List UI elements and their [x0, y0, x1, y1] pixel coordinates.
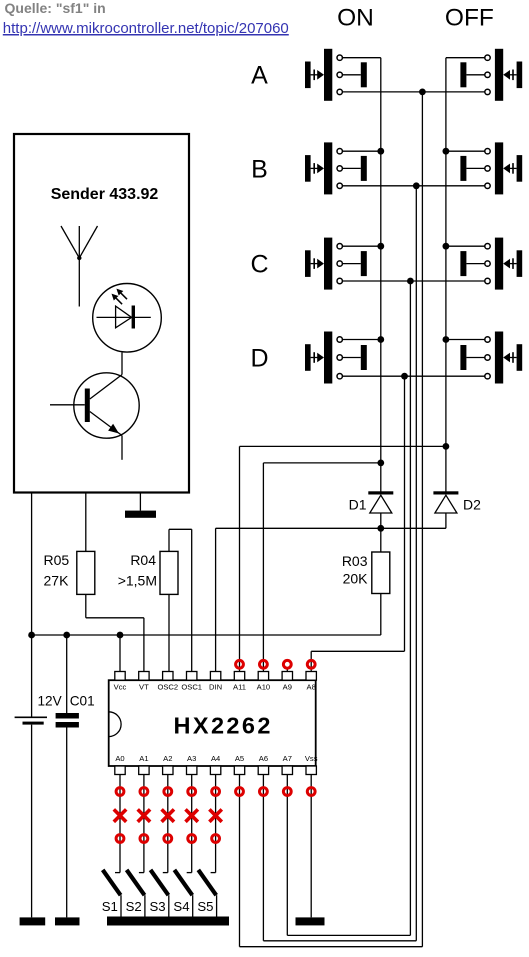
red ring A1 lower	[140, 835, 148, 843]
svg-text:A6: A6	[259, 754, 268, 763]
ground battery	[20, 917, 46, 925]
svg-text:DIN: DIN	[209, 682, 222, 691]
svg-text:>1,5M: >1,5M	[118, 572, 157, 588]
svg-text:S2: S2	[126, 899, 142, 914]
svg-text:R05: R05	[44, 552, 70, 568]
svg-text:A10: A10	[257, 682, 271, 691]
wire S3 to ground bar	[168, 895, 170, 916]
wire row A to A5 vertical	[421, 92, 423, 947]
pin box top Vcc	[115, 672, 125, 681]
junction row B ON top	[377, 148, 384, 155]
pin box top OSC1	[187, 672, 197, 681]
svg-text:A2: A2	[163, 754, 172, 763]
junction row D bottom	[401, 373, 408, 380]
battery 12V	[15, 717, 47, 917]
junction row B bottom	[413, 182, 420, 189]
svg-text:OSC2: OSC2	[157, 682, 178, 691]
svg-text:S1: S1	[102, 899, 118, 914]
wire A3 to switch	[187, 775, 192, 873]
wire R03 to bus	[380, 594, 382, 636]
wire A2 to switch	[163, 775, 168, 873]
red ring A10	[260, 660, 268, 668]
svg-text:27K: 27K	[44, 572, 70, 588]
wire A5 routing	[240, 775, 423, 947]
red ring A0	[116, 788, 124, 796]
pin box bottom A7	[282, 766, 292, 775]
switch S1 lever	[103, 870, 121, 895]
junction row D OFF top	[443, 336, 450, 343]
resistor R05	[77, 551, 95, 594]
svg-text:C: C	[250, 251, 268, 279]
pin box bottom A1	[139, 766, 149, 775]
ground Vss	[296, 917, 325, 925]
wire row B to A6 vertical	[415, 186, 417, 941]
wire sender box to battery	[31, 493, 33, 718]
pin box top OSC2	[163, 672, 173, 681]
svg-text:OFF: OFF	[445, 4, 494, 31]
wire row A bottom	[342, 91, 484, 93]
red ring A3	[188, 788, 196, 796]
svg-text:S3: S3	[150, 899, 166, 914]
svg-text:A7: A7	[283, 754, 292, 763]
junction ON bus D1	[377, 460, 384, 467]
pushbutton A OFF	[446, 49, 522, 101]
junction Vcc bus	[117, 632, 124, 639]
svg-text:B: B	[251, 155, 268, 183]
wire A7 routing	[287, 775, 410, 936]
wire A4 to switch	[211, 775, 216, 873]
ground C01	[55, 917, 80, 925]
svg-text:A1: A1	[139, 754, 148, 763]
red ring A2	[164, 788, 172, 796]
red X A0	[114, 809, 126, 821]
wire R03 top	[380, 528, 382, 552]
svg-text:R03: R03	[342, 553, 368, 569]
switch S5 lever	[198, 870, 216, 895]
pin box top DIN	[210, 672, 220, 681]
pushbutton C ON	[305, 238, 381, 290]
red ring A4	[212, 788, 220, 796]
pin box bottom A6	[258, 766, 268, 775]
red ring A3 lower	[188, 835, 196, 843]
red ring A6	[260, 788, 268, 796]
wire diode anodes to DIN	[216, 528, 446, 671]
red X A2	[162, 809, 174, 821]
switch S3 lever	[151, 870, 169, 895]
pushbutton C OFF	[446, 238, 522, 290]
diode D1	[368, 491, 393, 528]
svg-text:S5: S5	[197, 899, 213, 914]
junction row B OFF top	[443, 148, 450, 155]
junction D1 R03	[377, 525, 384, 532]
junction row A bottom	[419, 89, 426, 96]
pin box top A10	[258, 672, 268, 681]
svg-text:A5: A5	[235, 754, 244, 763]
antenna	[61, 226, 98, 307]
wire S2 to ground bar	[144, 895, 146, 916]
transistor Q1	[50, 373, 139, 460]
pin box bottom A2	[163, 766, 173, 775]
capacitor C01	[56, 713, 79, 917]
wire LED to transistor	[121, 352, 123, 374]
svg-text:A: A	[251, 62, 268, 90]
pushbutton D ON	[305, 332, 381, 384]
svg-text:12V: 12V	[38, 694, 62, 709]
pushbutton B OFF	[446, 142, 522, 194]
wire Vcc pin	[119, 635, 121, 672]
junction row C OFF top	[443, 243, 450, 250]
red X A4	[209, 809, 221, 821]
wire A1 to switch	[139, 775, 144, 873]
wire A6 routing	[263, 775, 416, 941]
ground bar switches	[107, 917, 229, 926]
wire A9 stub	[286, 668, 288, 672]
wire S5 to ground bar	[216, 895, 218, 916]
svg-text:Quelle: "sf1" in: Quelle: "sf1" in	[5, 0, 106, 16]
svg-text:A3: A3	[187, 754, 196, 763]
wire ON bus to A10	[263, 463, 380, 672]
red ring Vss	[307, 788, 315, 796]
sender box	[14, 134, 189, 493]
svg-text:A0: A0	[115, 754, 124, 763]
red ring A5	[236, 788, 244, 796]
svg-text:Vss: Vss	[305, 754, 318, 763]
red ring A8	[307, 660, 315, 668]
svg-text:VT: VT	[139, 682, 149, 691]
red X A1	[138, 809, 150, 821]
svg-text:D: D	[250, 344, 268, 372]
red X A3	[186, 809, 198, 821]
svg-text:A4: A4	[211, 754, 220, 763]
junction row C bottom	[407, 278, 414, 285]
pushbutton D OFF	[446, 332, 522, 384]
red ring A9	[283, 660, 291, 668]
pin box top VT	[139, 672, 149, 681]
wire R04 to OSC1	[169, 529, 192, 671]
svg-text:HX2262: HX2262	[174, 712, 273, 738]
pin box bottom A3	[187, 766, 197, 775]
svg-text:ON: ON	[337, 4, 374, 31]
wire S4 to ground bar	[192, 895, 194, 916]
svg-text:OSC1: OSC1	[181, 682, 202, 691]
ground below sender box	[125, 493, 156, 518]
svg-text:Vcc: Vcc	[114, 682, 127, 691]
wire S1 to ground bar	[120, 895, 122, 916]
red ring A2 lower	[164, 835, 172, 843]
wire A8 to row D	[311, 651, 404, 671]
switch S4 lever	[174, 870, 192, 895]
junction row D ON top	[377, 336, 384, 343]
wire sender box to R05	[85, 493, 87, 552]
pushbutton A ON	[305, 49, 381, 101]
svg-text:A9: A9	[283, 682, 292, 691]
wire row C bottom	[342, 280, 484, 282]
red ring A0 lower	[116, 835, 124, 843]
svg-text:C01: C01	[70, 694, 95, 709]
junction OFF bus D2	[443, 443, 450, 450]
pin box top A11	[234, 672, 244, 681]
junction battery bus	[28, 632, 35, 639]
wire A0 to switch	[115, 775, 120, 873]
wire Vss to ground	[310, 775, 312, 918]
LED circle	[93, 284, 162, 353]
pin box top A9	[282, 672, 292, 681]
pin box top A8	[306, 672, 316, 681]
resistor R04	[160, 551, 178, 594]
pin box bottom A0	[115, 766, 125, 775]
wire row C to A7 vertical	[409, 281, 411, 935]
pin box bottom A4	[210, 766, 220, 775]
svg-text:D2: D2	[463, 497, 481, 513]
wire Vcc bus horizontal	[32, 634, 381, 636]
svg-text:A11: A11	[233, 682, 246, 691]
switch S2 lever	[127, 870, 145, 895]
svg-text:R04: R04	[130, 552, 156, 568]
svg-text:Sender 433.92: Sender 433.92	[51, 186, 159, 203]
red ring A4 lower	[212, 835, 220, 843]
wire row B bottom	[342, 185, 484, 187]
IC U1 HX2262 body	[109, 680, 316, 766]
junction C01 bus	[63, 632, 70, 639]
wire ON bus vertical	[380, 58, 382, 492]
svg-text:S4: S4	[173, 899, 189, 914]
svg-text:D1: D1	[349, 497, 367, 513]
wire bus to C01	[66, 635, 68, 713]
resistor R03	[372, 552, 390, 594]
red ring A1	[140, 788, 148, 796]
pushbutton B ON	[305, 142, 381, 194]
wire row D bottom	[342, 375, 484, 377]
wire OFF bus to A11	[240, 446, 446, 671]
wire R05 to VT	[86, 594, 144, 671]
pin box bottom A5	[234, 766, 244, 775]
diode D2	[433, 491, 458, 528]
pin box bottom Vss	[306, 766, 316, 775]
svg-text:20K: 20K	[343, 571, 369, 587]
red ring A7	[283, 788, 291, 796]
wire R04 to OSC2	[168, 594, 170, 671]
junction row C ON top	[377, 243, 384, 250]
red ring A11	[236, 660, 244, 668]
wire OFF bus vertical	[445, 58, 447, 492]
svg-text:http://www.mikrocontroller.net: http://www.mikrocontroller.net/topic/207…	[3, 20, 289, 37]
wire row D to A8 vertical	[404, 376, 406, 651]
svg-text:A8: A8	[307, 682, 316, 691]
